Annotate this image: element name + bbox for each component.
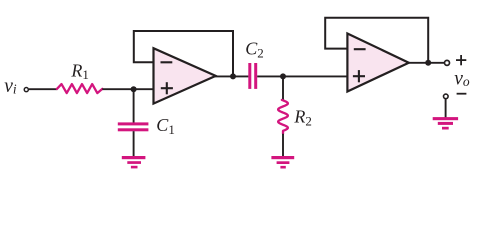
resistor R1 xyxy=(57,84,102,93)
wire: feedback loop of U2 (output to inverting input) xyxy=(325,18,428,64)
minus symbol (vo) xyxy=(457,93,467,95)
capacitor C2 xyxy=(248,63,257,89)
node: junction of R1, C1, U1 input xyxy=(131,86,137,92)
input terminal (vi) xyxy=(24,88,28,92)
ground (below R2) xyxy=(271,156,294,169)
plus symbol (vo) xyxy=(456,55,466,65)
wire: lower output terminal to ground xyxy=(445,99,447,118)
ground (output) xyxy=(433,117,458,129)
node: U2 output / feedback junction xyxy=(425,60,431,66)
wire: node down to C1 xyxy=(133,89,135,122)
output terminal (vo +) xyxy=(445,60,450,65)
resistor R2 xyxy=(278,100,288,134)
op-amp U2 xyxy=(347,34,408,92)
wire: node down to R2 xyxy=(282,76,284,100)
node: junction of C2, R2, U2 input xyxy=(280,73,286,79)
ground (below C1) xyxy=(122,156,146,168)
wire: U2 output to output terminal xyxy=(408,62,445,64)
wire: U1 output to C2 xyxy=(215,75,249,77)
wire: R1 to op-amp U1 plus input xyxy=(102,88,153,90)
capacitor C1 xyxy=(118,122,149,131)
wire: R2 to ground xyxy=(282,134,284,157)
wire: C2 to op-amp U2 plus input xyxy=(257,75,347,77)
wire: input terminal to R1 xyxy=(29,88,57,90)
wire: feedback loop of U1 (output to inverting input) xyxy=(134,31,233,76)
node: U1 output / feedback junction xyxy=(230,73,236,79)
wire: C1 to ground xyxy=(133,131,135,156)
output terminal (vo -) xyxy=(444,94,449,99)
op-amp U1 xyxy=(154,48,216,103)
